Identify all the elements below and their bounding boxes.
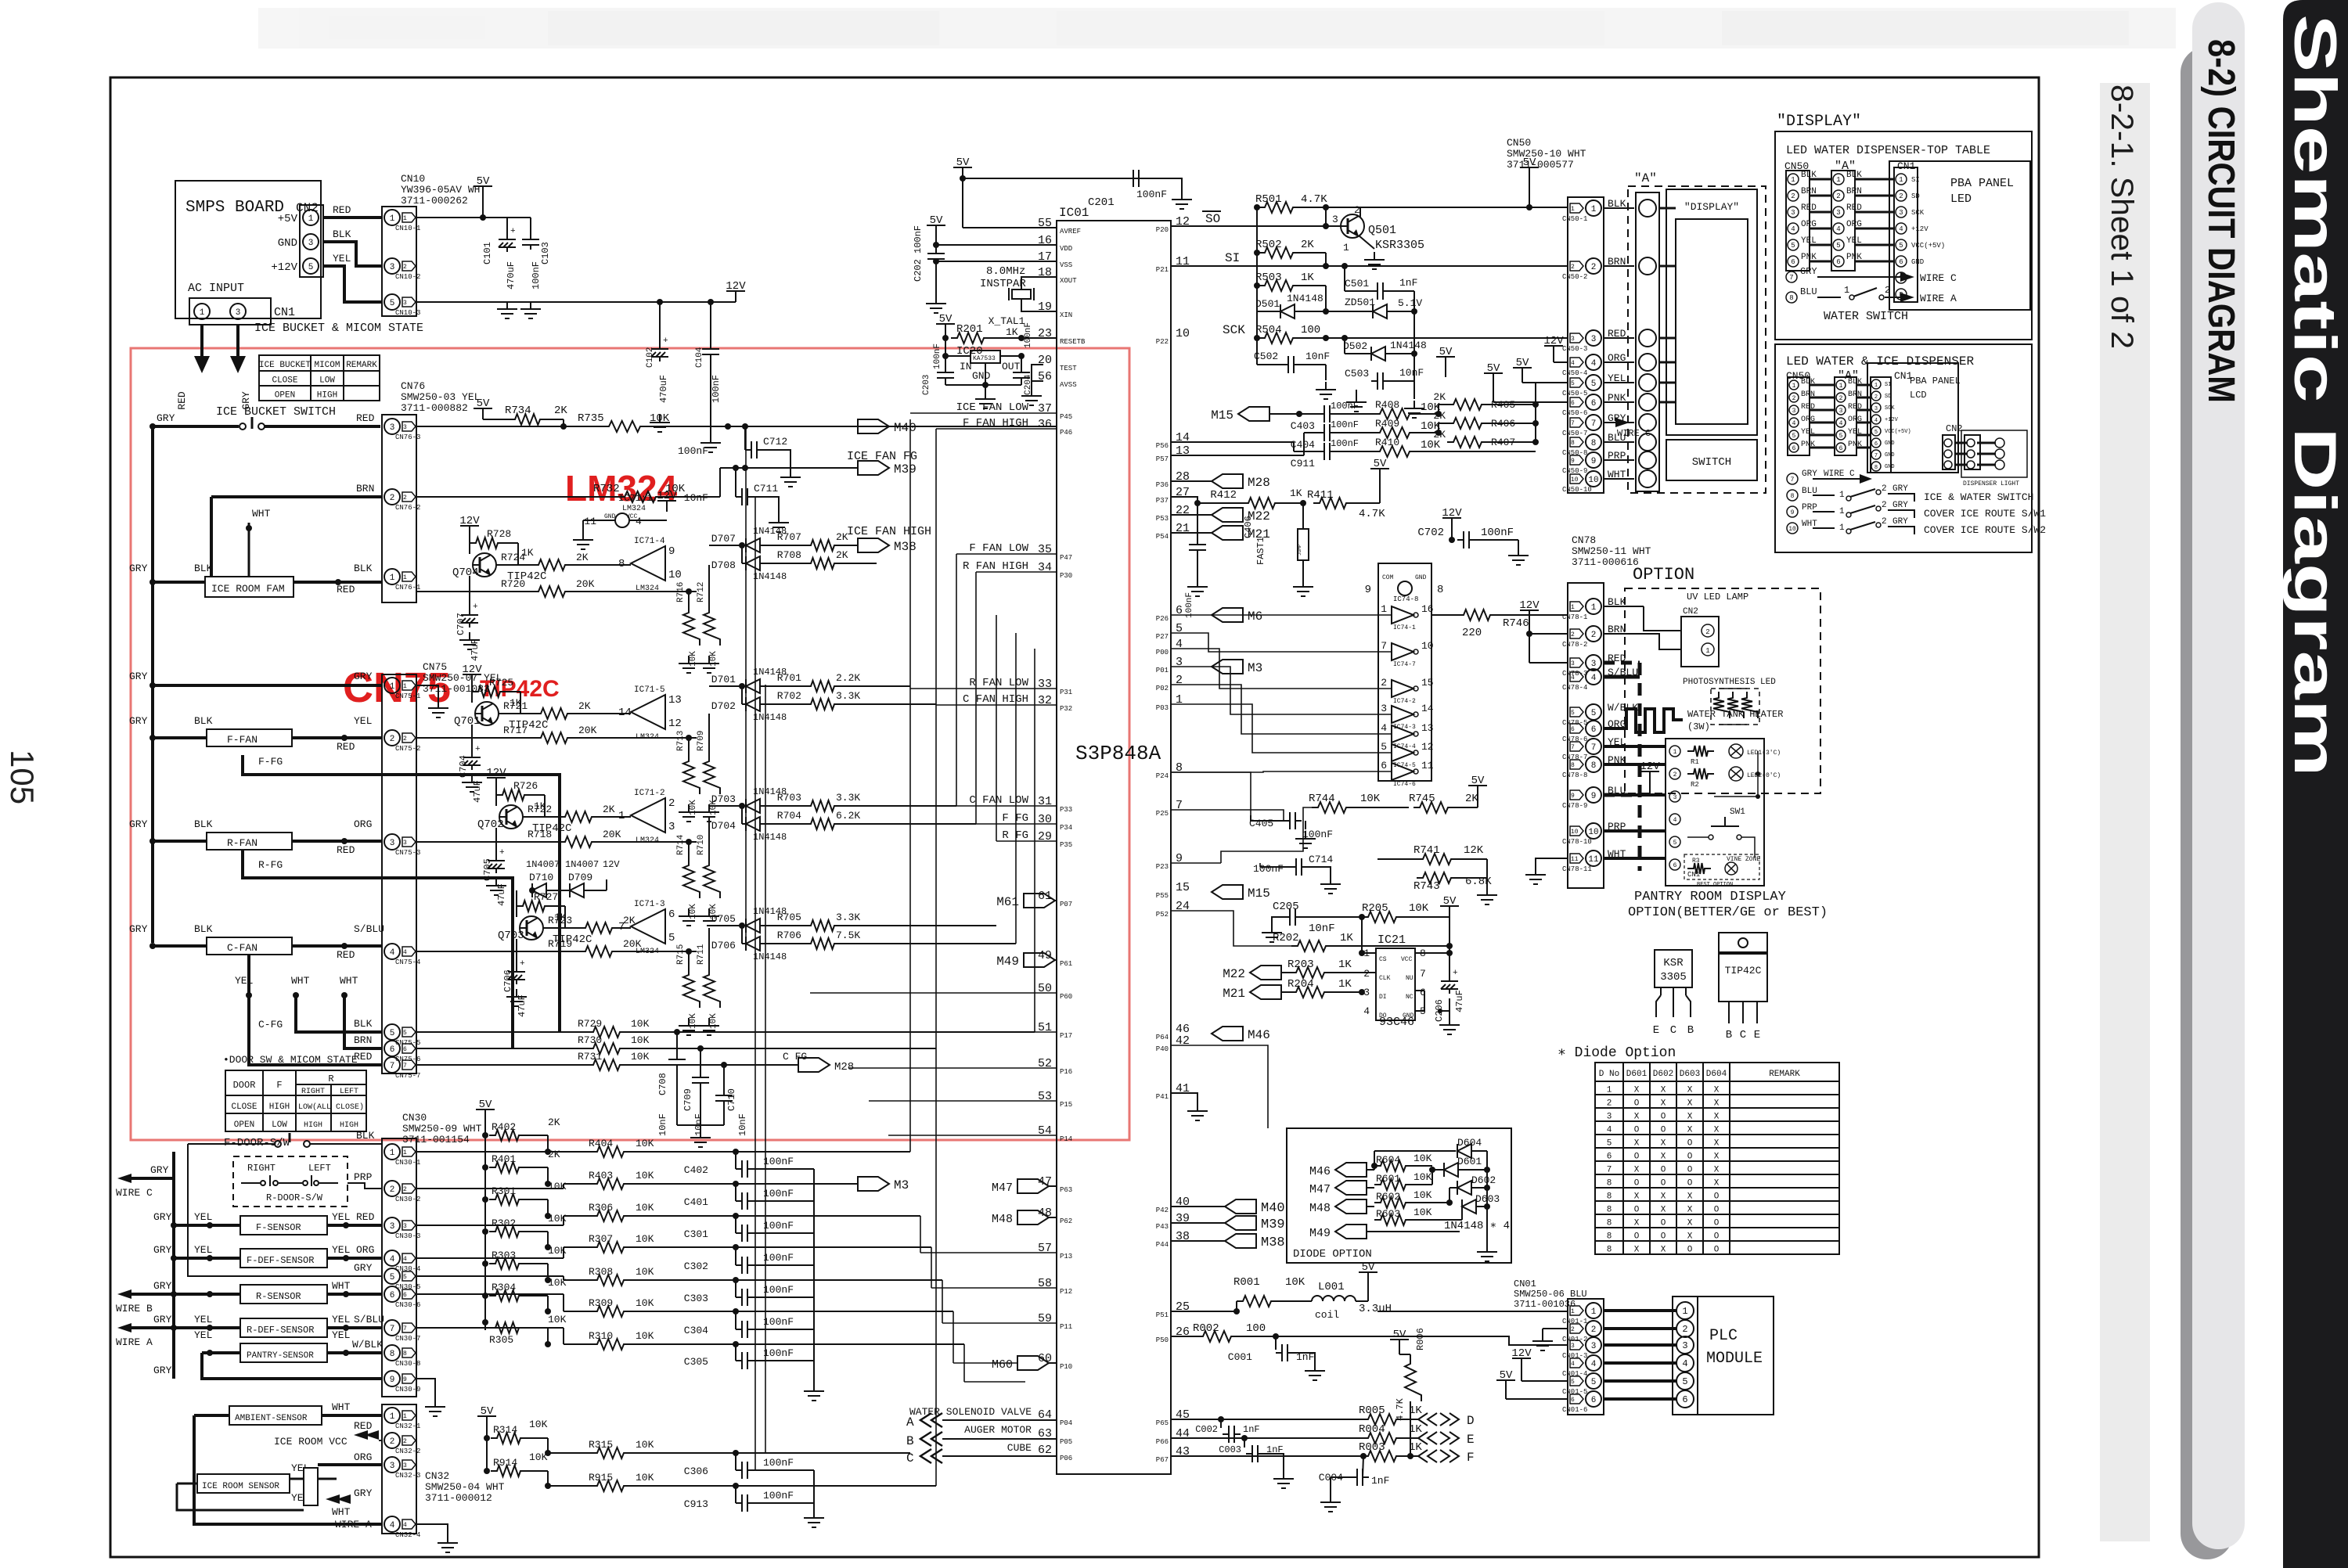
svg-text:O: O	[1661, 1113, 1666, 1122]
svg-text:12: 12	[1421, 741, 1434, 753]
svg-text:D501: D501	[1255, 298, 1280, 310]
svg-text:IC74-1: IC74-1	[1393, 624, 1416, 631]
svg-text:(3W): (3W)	[1687, 721, 1710, 732]
capacitor C206 47uF	[1449, 953, 1450, 976]
svg-text:4: 4	[1381, 722, 1387, 734]
svg-text:10K: 10K	[1409, 902, 1429, 915]
svg-text:3711-000882: 3711-000882	[401, 402, 468, 414]
svg-text:6: 6	[1792, 445, 1796, 452]
svg-text:C502: C502	[1254, 351, 1278, 362]
svg-text:X: X	[1714, 1153, 1720, 1162]
svg-text:CN50-3: CN50-3	[1562, 345, 1587, 353]
middle vertical wire bundle	[746, 419, 1057, 1486]
connector CN2 pins on SMPS	[300, 205, 323, 277]
svg-text:M39: M39	[894, 462, 917, 477]
CN50 wire color labels	[1604, 198, 1634, 480]
svg-text:P43: P43	[1156, 1223, 1169, 1231]
IC74 inverter cells	[1381, 603, 1434, 788]
svg-text:WIRE B: WIRE B	[116, 1303, 153, 1314]
OPTION dashed box	[1625, 588, 1820, 793]
capacitor C302 100nF	[733, 1244, 739, 1250]
resistor R304 10K	[482, 1293, 488, 1299]
svg-text:R713: R713	[676, 731, 686, 751]
svg-text:S/BLU: S/BLU	[354, 923, 384, 935]
svg-text:3: 3	[403, 300, 407, 307]
svg-text:P66: P66	[1156, 1438, 1169, 1446]
svg-text:R410: R410	[1375, 437, 1399, 448]
svg-text:∗ Diode Option: ∗ Diode Option	[1558, 1045, 1676, 1061]
svg-text:2: 2	[1791, 192, 1795, 200]
svg-text:1N4148: 1N4148	[753, 951, 787, 962]
svg-text:F: F	[1467, 1451, 1475, 1465]
svg-text:LOW: LOW	[272, 1120, 287, 1130]
svg-text:2: 2	[1885, 285, 1890, 296]
svg-text:5: 5	[1874, 430, 1878, 436]
svg-text:CUBE: CUBE	[1007, 1442, 1032, 1454]
svg-text:1: 1	[1673, 749, 1677, 756]
svg-text:CN32-4: CN32-4	[395, 1531, 420, 1539]
capsule 8-2) CIRCUIT DIAGRAM	[2192, 2, 2245, 1549]
svg-text:E: E	[1467, 1433, 1475, 1447]
capacitor C707 47uF	[469, 576, 470, 610]
svg-text:5: 5	[1673, 840, 1677, 847]
svg-text:R203: R203	[1287, 958, 1314, 971]
resistor R720 20K	[416, 591, 532, 592]
svg-text:R726: R726	[513, 780, 538, 792]
resistor R302 10K	[482, 1228, 488, 1235]
R-DEF-SENSOR box	[240, 1318, 327, 1337]
svg-text:9: 9	[1591, 792, 1597, 801]
svg-text:C304: C304	[684, 1325, 708, 1336]
svg-text:6: 6	[1836, 258, 1840, 266]
svg-text:6: 6	[390, 1045, 395, 1055]
svg-text:7: 7	[1789, 274, 1793, 282]
A mini column top box	[1831, 171, 1855, 271]
svg-text:X_TAL1: X_TAL1	[989, 315, 1025, 327]
package KSR3305	[1655, 950, 1692, 987]
capacitor C706 47uF	[516, 939, 517, 967]
svg-text:R714: R714	[676, 834, 686, 855]
svg-text:WHT: WHT	[332, 1506, 351, 1518]
svg-text:P25: P25	[1156, 810, 1169, 818]
svg-text:P60: P60	[1060, 993, 1072, 1001]
svg-text:O: O	[1714, 1246, 1720, 1255]
svg-text:3711-000012: 3711-000012	[425, 1492, 492, 1504]
wire to M39	[708, 497, 710, 565]
svg-text:M40: M40	[894, 421, 917, 435]
svg-text:GRY: GRY	[1892, 501, 1908, 510]
svg-text:1: 1	[1591, 205, 1597, 214]
svg-text:C201: C201	[1088, 196, 1115, 209]
svg-text:1: 1	[1791, 176, 1795, 184]
svg-text:1: 1	[1839, 523, 1845, 533]
svg-text:1: 1	[390, 682, 395, 692]
svg-text:O: O	[1634, 1126, 1640, 1135]
svg-text:WHT: WHT	[332, 1401, 351, 1413]
svg-text:PRP: PRP	[354, 1171, 373, 1183]
C-FAN box	[207, 937, 292, 955]
svg-text:1N4148: 1N4148	[753, 571, 787, 582]
svg-text:CN78-2: CN78-2	[1562, 641, 1587, 649]
svg-text:5.1V: 5.1V	[1398, 297, 1422, 309]
svg-text:2: 2	[403, 264, 407, 271]
svg-text:C-FAN: C-FAN	[227, 942, 257, 954]
resistor R412 1K R411 4.7K	[1171, 497, 1242, 503]
svg-text:5: 5	[1899, 242, 1903, 250]
svg-text:R409: R409	[1375, 418, 1399, 430]
svg-text:C203: C203	[922, 375, 931, 395]
svg-text:3: 3	[236, 308, 241, 318]
svg-text:REMARK: REMARK	[346, 361, 377, 370]
svg-text:2K: 2K	[576, 552, 589, 563]
svg-text:CN75-3: CN75-3	[395, 849, 420, 857]
svg-text:LEFT: LEFT	[340, 1088, 358, 1096]
svg-text:6: 6	[403, 1292, 407, 1299]
op-amp IC71-5	[631, 695, 665, 729]
resistor R723 2K	[565, 927, 579, 929]
svg-text:1K: 1K	[1006, 326, 1018, 338]
svg-text:CN10-1: CN10-1	[395, 225, 420, 232]
svg-text:D604: D604	[1457, 1137, 1482, 1149]
svg-text:X: X	[1714, 1166, 1720, 1175]
svg-text:2K: 2K	[578, 700, 591, 712]
svg-text:10K: 10K	[636, 1266, 654, 1278]
svg-text:F-FAN: F-FAN	[227, 734, 257, 746]
svg-text:100nF: 100nF	[763, 1220, 794, 1232]
svg-text:BLK: BLK	[356, 1130, 375, 1142]
svg-text:4: 4	[390, 1255, 395, 1264]
svg-text:100nF: 100nF	[531, 261, 542, 290]
svg-text:R708: R708	[777, 549, 801, 561]
svg-text:1K: 1K	[1301, 272, 1314, 284]
svg-text:E: E	[1754, 1029, 1760, 1041]
option thick dashed bus	[1638, 663, 1642, 871]
svg-text:11: 11	[1588, 855, 1599, 865]
svg-text:3: 3	[403, 840, 407, 847]
R-DOOR-S/W dashed box	[233, 1156, 348, 1207]
svg-text:R711: R711	[697, 944, 706, 965]
svg-text:10: 10	[1588, 828, 1598, 837]
svg-text:8: 8	[1791, 493, 1795, 500]
svg-text:1: 1	[1682, 1306, 1687, 1317]
wire trunk CN30	[187, 1144, 189, 1240]
svg-text:D602: D602	[1471, 1174, 1496, 1186]
svg-text:R716: R716	[676, 582, 686, 602]
svg-text:4.7K: 4.7K	[1395, 1397, 1406, 1421]
svg-text:4: 4	[1836, 225, 1840, 233]
svg-text:2K: 2K	[1433, 391, 1446, 403]
svg-text:2: 2	[1792, 395, 1796, 402]
svg-text:RED: RED	[337, 844, 355, 856]
capacitor C104 100nF	[710, 302, 711, 344]
svg-text:R727: R727	[534, 891, 558, 903]
svg-text:DIODE OPTION: DIODE OPTION	[1293, 1248, 1372, 1261]
svg-text:CN30-9: CN30-9	[395, 1386, 420, 1394]
svg-text:P55: P55	[1156, 892, 1169, 900]
svg-text:100: 100	[1301, 324, 1320, 336]
resistor R729 10K	[416, 1031, 587, 1033]
capacitor C304 100nF	[733, 1308, 739, 1314]
svg-text:R301: R301	[492, 1185, 516, 1197]
svg-text:10: 10	[1788, 526, 1796, 533]
SWITCH box	[1666, 440, 1757, 480]
CN1 mini column PBA PANEL LED	[1894, 167, 1918, 302]
svg-text:RED: RED	[337, 584, 355, 595]
svg-text:RED: RED	[176, 391, 188, 410]
svg-text:P01: P01	[1156, 667, 1169, 674]
svg-text:YEL: YEL	[194, 1211, 212, 1223]
svg-text:2: 2	[390, 494, 395, 503]
svg-text:6: 6	[403, 1046, 407, 1053]
svg-text:JUMP: JUMP	[1297, 544, 1302, 556]
capacitor C704 47uF	[471, 725, 473, 753]
svg-text:IC74-7: IC74-7	[1393, 661, 1416, 668]
svg-text:1: 1	[1571, 1308, 1575, 1315]
capacitor C710 10nF	[721, 1062, 727, 1068]
svg-text:GRY: GRY	[157, 412, 175, 424]
red highlight rectangle	[131, 348, 1129, 1140]
svg-text:R735: R735	[578, 412, 604, 425]
svg-text:2K: 2K	[836, 549, 848, 561]
svg-text:GRY: GRY	[1892, 484, 1908, 494]
svg-text:P11: P11	[1060, 1323, 1072, 1331]
connector CN76	[382, 415, 416, 602]
svg-text:2: 2	[1591, 1325, 1597, 1335]
svg-text:R001: R001	[1233, 1276, 1260, 1289]
ICE ROOM FAM box	[205, 577, 293, 597]
svg-text:W/BLK: W/BLK	[352, 1339, 383, 1350]
svg-text:DOOR: DOOR	[233, 1080, 256, 1091]
svg-text:KSR: KSR	[1663, 957, 1684, 969]
svg-text:O: O	[1714, 1192, 1720, 1202]
svg-text:7: 7	[1381, 640, 1387, 652]
svg-text:R743: R743	[1413, 880, 1440, 893]
svg-text:2: 2	[1705, 628, 1709, 636]
tag M48 in diode block	[1335, 1199, 1367, 1214]
svg-text:2K: 2K	[1433, 429, 1446, 441]
svg-text:FAST1: FAST1	[1255, 537, 1266, 565]
svg-text:X: X	[1634, 1219, 1640, 1228]
wire VDD VSS	[936, 244, 1057, 246]
svg-text:4.7K: 4.7K	[1359, 508, 1385, 520]
svg-text:C102: C102	[646, 347, 655, 368]
svg-text:C406: C406	[1243, 516, 1254, 538]
svg-text:C706: C706	[502, 969, 513, 992]
svg-text:R717: R717	[503, 725, 528, 736]
svg-text:6: 6	[1839, 445, 1843, 452]
wire C row bottom box	[1787, 473, 1798, 484]
svg-text:GND: GND	[1403, 1012, 1414, 1020]
svg-text:M38: M38	[1261, 1235, 1285, 1250]
tags M40 M39 M38 right side rows	[1225, 1199, 1256, 1214]
connector CN01	[1568, 1299, 1604, 1415]
CN78 wire color labels	[1608, 596, 1638, 860]
svg-text:2: 2	[403, 1438, 407, 1445]
svg-text:R: R	[328, 1074, 333, 1084]
svg-text:O: O	[1714, 1206, 1720, 1215]
svg-text:7: 7	[390, 1062, 395, 1071]
svg-text:ICE BUCKET: ICE BUCKET	[259, 361, 311, 370]
svg-text:4: 4	[403, 1256, 407, 1263]
svg-text:P47: P47	[1060, 554, 1072, 562]
svg-text:F: F	[276, 1080, 282, 1091]
svg-text:2: 2	[1882, 517, 1887, 527]
svg-text:O: O	[1714, 1232, 1720, 1242]
svg-text:CN78-8: CN78-8	[1562, 771, 1587, 779]
svg-text:O: O	[1661, 1166, 1666, 1175]
svg-text:LM324: LM324	[636, 733, 659, 742]
svg-text:1K: 1K	[1338, 978, 1352, 991]
svg-text:C-FG: C-FG	[258, 1019, 283, 1030]
resistor R914 10K	[484, 1468, 490, 1474]
svg-text:RED: RED	[337, 741, 355, 753]
wire WIRE C	[117, 1174, 131, 1183]
svg-text:15: 15	[1421, 677, 1434, 689]
WIRE C arrow at CN50-7	[1615, 418, 1630, 427]
svg-text:6: 6	[1874, 441, 1878, 448]
svg-text:P07: P07	[1060, 901, 1072, 908]
svg-text:S/BLU: S/BLU	[354, 1314, 384, 1325]
capacitor C711 10nF	[742, 465, 748, 471]
svg-text:3: 3	[403, 1462, 407, 1469]
svg-text:6: 6	[390, 1291, 395, 1300]
svg-text:3.3K: 3.3K	[836, 792, 860, 804]
svg-text:10K: 10K	[529, 1451, 548, 1463]
svg-text:WATER SWITCH: WATER SWITCH	[1824, 310, 1908, 323]
connector CN50	[1568, 197, 1604, 493]
svg-text:LM324: LM324	[636, 584, 659, 593]
svg-text:HIGH: HIGH	[269, 1102, 290, 1112]
svg-text:PHOTOSYNTHESIS LED: PHOTOSYNTHESIS LED	[1683, 678, 1776, 687]
svg-text:5: 5	[1571, 380, 1575, 387]
resistor R401 2K	[482, 1164, 488, 1171]
svg-text:8: 8	[1591, 761, 1597, 771]
svg-text:D601: D601	[1457, 1156, 1482, 1167]
op-amp IC71-2	[631, 798, 665, 833]
svg-text:GND: GND	[1885, 452, 1895, 459]
ground CN01-2	[1543, 1328, 1568, 1329]
resistor R721 2K	[520, 713, 535, 714]
svg-text:4: 4	[1791, 225, 1795, 233]
svg-text:WATER TANK HEATER: WATER TANK HEATER	[1687, 709, 1783, 720]
svg-text:C302: C302	[684, 1261, 708, 1272]
svg-text:R732: R732	[593, 483, 620, 495]
diode option block box	[1287, 1128, 1511, 1263]
svg-text:9: 9	[1791, 509, 1795, 516]
tag M28 M22 M21 right of chip	[1212, 474, 1243, 488]
resistor R403 10K tag M3	[591, 1178, 630, 1189]
svg-text:P05: P05	[1060, 1438, 1072, 1446]
svg-text:6: 6	[1591, 1396, 1597, 1405]
svg-text:AVSS: AVSS	[1060, 381, 1077, 389]
PBA PANEL LED box	[1889, 161, 2030, 310]
svg-text:1N4007: 1N4007	[526, 859, 560, 870]
svg-text:BLK: BLK	[194, 923, 213, 935]
resistor R308 10K	[591, 1275, 630, 1286]
svg-text:X: X	[1661, 1192, 1666, 1202]
svg-text:2: 2	[1363, 968, 1370, 980]
svg-text:YEL: YEL	[194, 1314, 212, 1325]
svg-text:PANTRY ROOM DISPLAY: PANTRY ROOM DISPLAY	[1634, 890, 1786, 904]
svg-text:X: X	[1687, 1113, 1693, 1122]
svg-text:C206: C206	[1434, 999, 1445, 1022]
svg-text:VDD: VDD	[1060, 245, 1072, 253]
svg-text:3: 3	[1899, 209, 1903, 217]
svg-text:62: 62	[1038, 1444, 1052, 1457]
svg-text:105: 105	[4, 750, 41, 804]
svg-text:D705: D705	[711, 913, 736, 925]
svg-text:20K: 20K	[576, 578, 595, 590]
svg-text:R702: R702	[777, 690, 801, 702]
svg-text:4: 4	[1363, 1005, 1370, 1017]
svg-text:P63: P63	[1060, 1186, 1072, 1194]
svg-text:X: X	[1634, 1166, 1640, 1175]
svg-text:P10: P10	[1060, 1363, 1072, 1371]
svg-text:IC01: IC01	[1059, 206, 1089, 220]
AMBIENT-SENSOR box	[229, 1406, 322, 1425]
svg-text:P12: P12	[1060, 1288, 1072, 1296]
svg-text:5: 5	[1571, 1379, 1575, 1386]
svg-text:IC74-6: IC74-6	[1393, 781, 1416, 788]
svg-text:2: 2	[1607, 1099, 1612, 1109]
diode D502 1N4148	[1344, 338, 1345, 354]
svg-text:O: O	[1634, 1099, 1640, 1109]
svg-text:R712: R712	[697, 582, 706, 602]
svg-text:3: 3	[1836, 209, 1840, 217]
capacitor C709 10nF	[697, 1045, 704, 1052]
svg-text:100nF: 100nF	[763, 1252, 794, 1264]
svg-text:P23: P23	[1156, 863, 1169, 871]
sheet stripe 8-2-1	[2100, 83, 2150, 1541]
AC input arrows RED GRY	[200, 325, 203, 366]
svg-text:C707: C707	[456, 613, 466, 635]
capacitor C401 100nF	[733, 1181, 739, 1187]
svg-text:D No: D No	[1599, 1070, 1619, 1079]
svg-text:5: 5	[1571, 710, 1575, 717]
svg-text:WIRE A: WIRE A	[1920, 293, 1957, 304]
svg-text:100nF: 100nF	[1185, 592, 1194, 618]
svg-text:9: 9	[390, 1376, 395, 1385]
svg-text:2: 2	[403, 494, 407, 502]
svg-text:1: 1	[1381, 603, 1387, 615]
svg-text:R729: R729	[578, 1018, 602, 1030]
svg-text:M38: M38	[894, 540, 917, 554]
svg-text:2: 2	[1899, 192, 1903, 200]
svg-text:OPEN: OPEN	[275, 391, 295, 401]
svg-text:P33: P33	[1060, 806, 1072, 814]
svg-text:12V: 12V	[603, 859, 620, 870]
svg-text:6: 6	[1673, 862, 1677, 869]
svg-text:R-FG: R-FG	[258, 859, 283, 871]
svg-text:P32: P32	[1060, 705, 1072, 713]
tag M46 M15 wires	[1212, 1027, 1243, 1041]
svg-text:X: X	[1634, 1113, 1640, 1122]
switch rows BLU PRP WHT bottom box	[1787, 490, 1798, 501]
svg-text:C711: C711	[754, 483, 778, 494]
svg-text:OPEN: OPEN	[234, 1120, 254, 1130]
svg-text:F-FG: F-FG	[258, 756, 283, 768]
resistor R309 10K	[591, 1306, 630, 1317]
svg-text:SD: SD	[1911, 192, 1920, 200]
svg-text:1N4148: 1N4148	[753, 712, 787, 723]
staircase to lower rows	[909, 1151, 911, 1153]
svg-text:M39: M39	[1261, 1217, 1285, 1232]
svg-text:D704: D704	[711, 820, 736, 832]
svg-text:X: X	[1714, 1099, 1720, 1109]
svg-text:ICE FAN HIGH: ICE FAN HIGH	[847, 525, 931, 538]
capacitor C712 100nF	[742, 423, 748, 430]
svg-text:LED WATER & ICE DISPENSER: LED WATER & ICE DISPENSER	[1786, 354, 1974, 369]
